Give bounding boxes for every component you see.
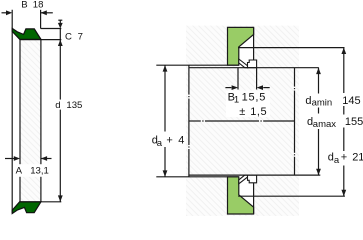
svg-text:135: 135 <box>66 100 82 111</box>
svg-text:±: ± <box>239 106 245 118</box>
svg-text:145: 145 <box>342 95 360 107</box>
svg-text:18: 18 <box>33 0 44 11</box>
svg-text:1,5: 1,5 <box>250 106 267 118</box>
svg-text:a: a <box>157 138 163 149</box>
svg-text:B: B <box>21 0 27 11</box>
svg-text:amax: amax <box>313 119 336 130</box>
svg-text:13,1: 13,1 <box>30 165 49 176</box>
svg-text:+: + <box>166 135 172 147</box>
svg-text:15,5: 15,5 <box>242 91 267 103</box>
svg-text:+: + <box>341 152 347 164</box>
svg-text:C: C <box>65 31 72 42</box>
svg-text:7: 7 <box>78 31 83 42</box>
svg-text:21: 21 <box>352 152 363 164</box>
svg-text:d: d <box>55 100 60 111</box>
svg-text:1: 1 <box>234 94 239 105</box>
svg-text:A: A <box>16 165 23 176</box>
svg-text:d: d <box>305 95 311 107</box>
svg-text:a: a <box>334 155 340 166</box>
svg-text:4: 4 <box>178 135 184 147</box>
svg-text:155: 155 <box>345 116 363 128</box>
svg-text:amin: amin <box>312 98 333 109</box>
